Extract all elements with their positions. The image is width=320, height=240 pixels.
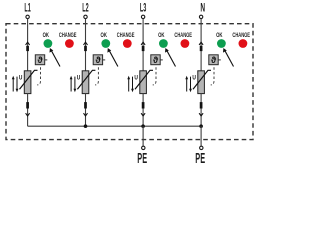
svg-text:U: U — [192, 75, 195, 82]
svg-text:U: U — [77, 75, 80, 82]
svg-text:L3: L3 — [140, 1, 146, 14]
svg-text:OK: OK — [101, 32, 107, 39]
svg-text:PE: PE — [195, 149, 205, 164]
svg-text:L1: L1 — [24, 1, 30, 14]
svg-text:CHANGE: CHANGE — [174, 32, 192, 39]
svg-text:CHANGE: CHANGE — [232, 32, 250, 39]
svg-text:ϑ: ϑ — [153, 55, 159, 65]
svg-text:U: U — [19, 75, 22, 82]
svg-text:U: U — [134, 75, 137, 82]
svg-text:OK: OK — [43, 32, 49, 39]
svg-text:L2: L2 — [82, 1, 88, 14]
svg-text:CHANGE: CHANGE — [59, 32, 77, 39]
svg-text:ϑ: ϑ — [38, 55, 44, 65]
svg-text:OK: OK — [158, 32, 164, 39]
svg-text:ϑ: ϑ — [95, 55, 101, 65]
svg-text:N: N — [200, 2, 205, 16]
svg-text:CHANGE: CHANGE — [117, 32, 135, 39]
svg-text:ϑ: ϑ — [211, 55, 217, 65]
svg-text:PE: PE — [137, 149, 147, 164]
svg-text:OK: OK — [216, 32, 222, 39]
